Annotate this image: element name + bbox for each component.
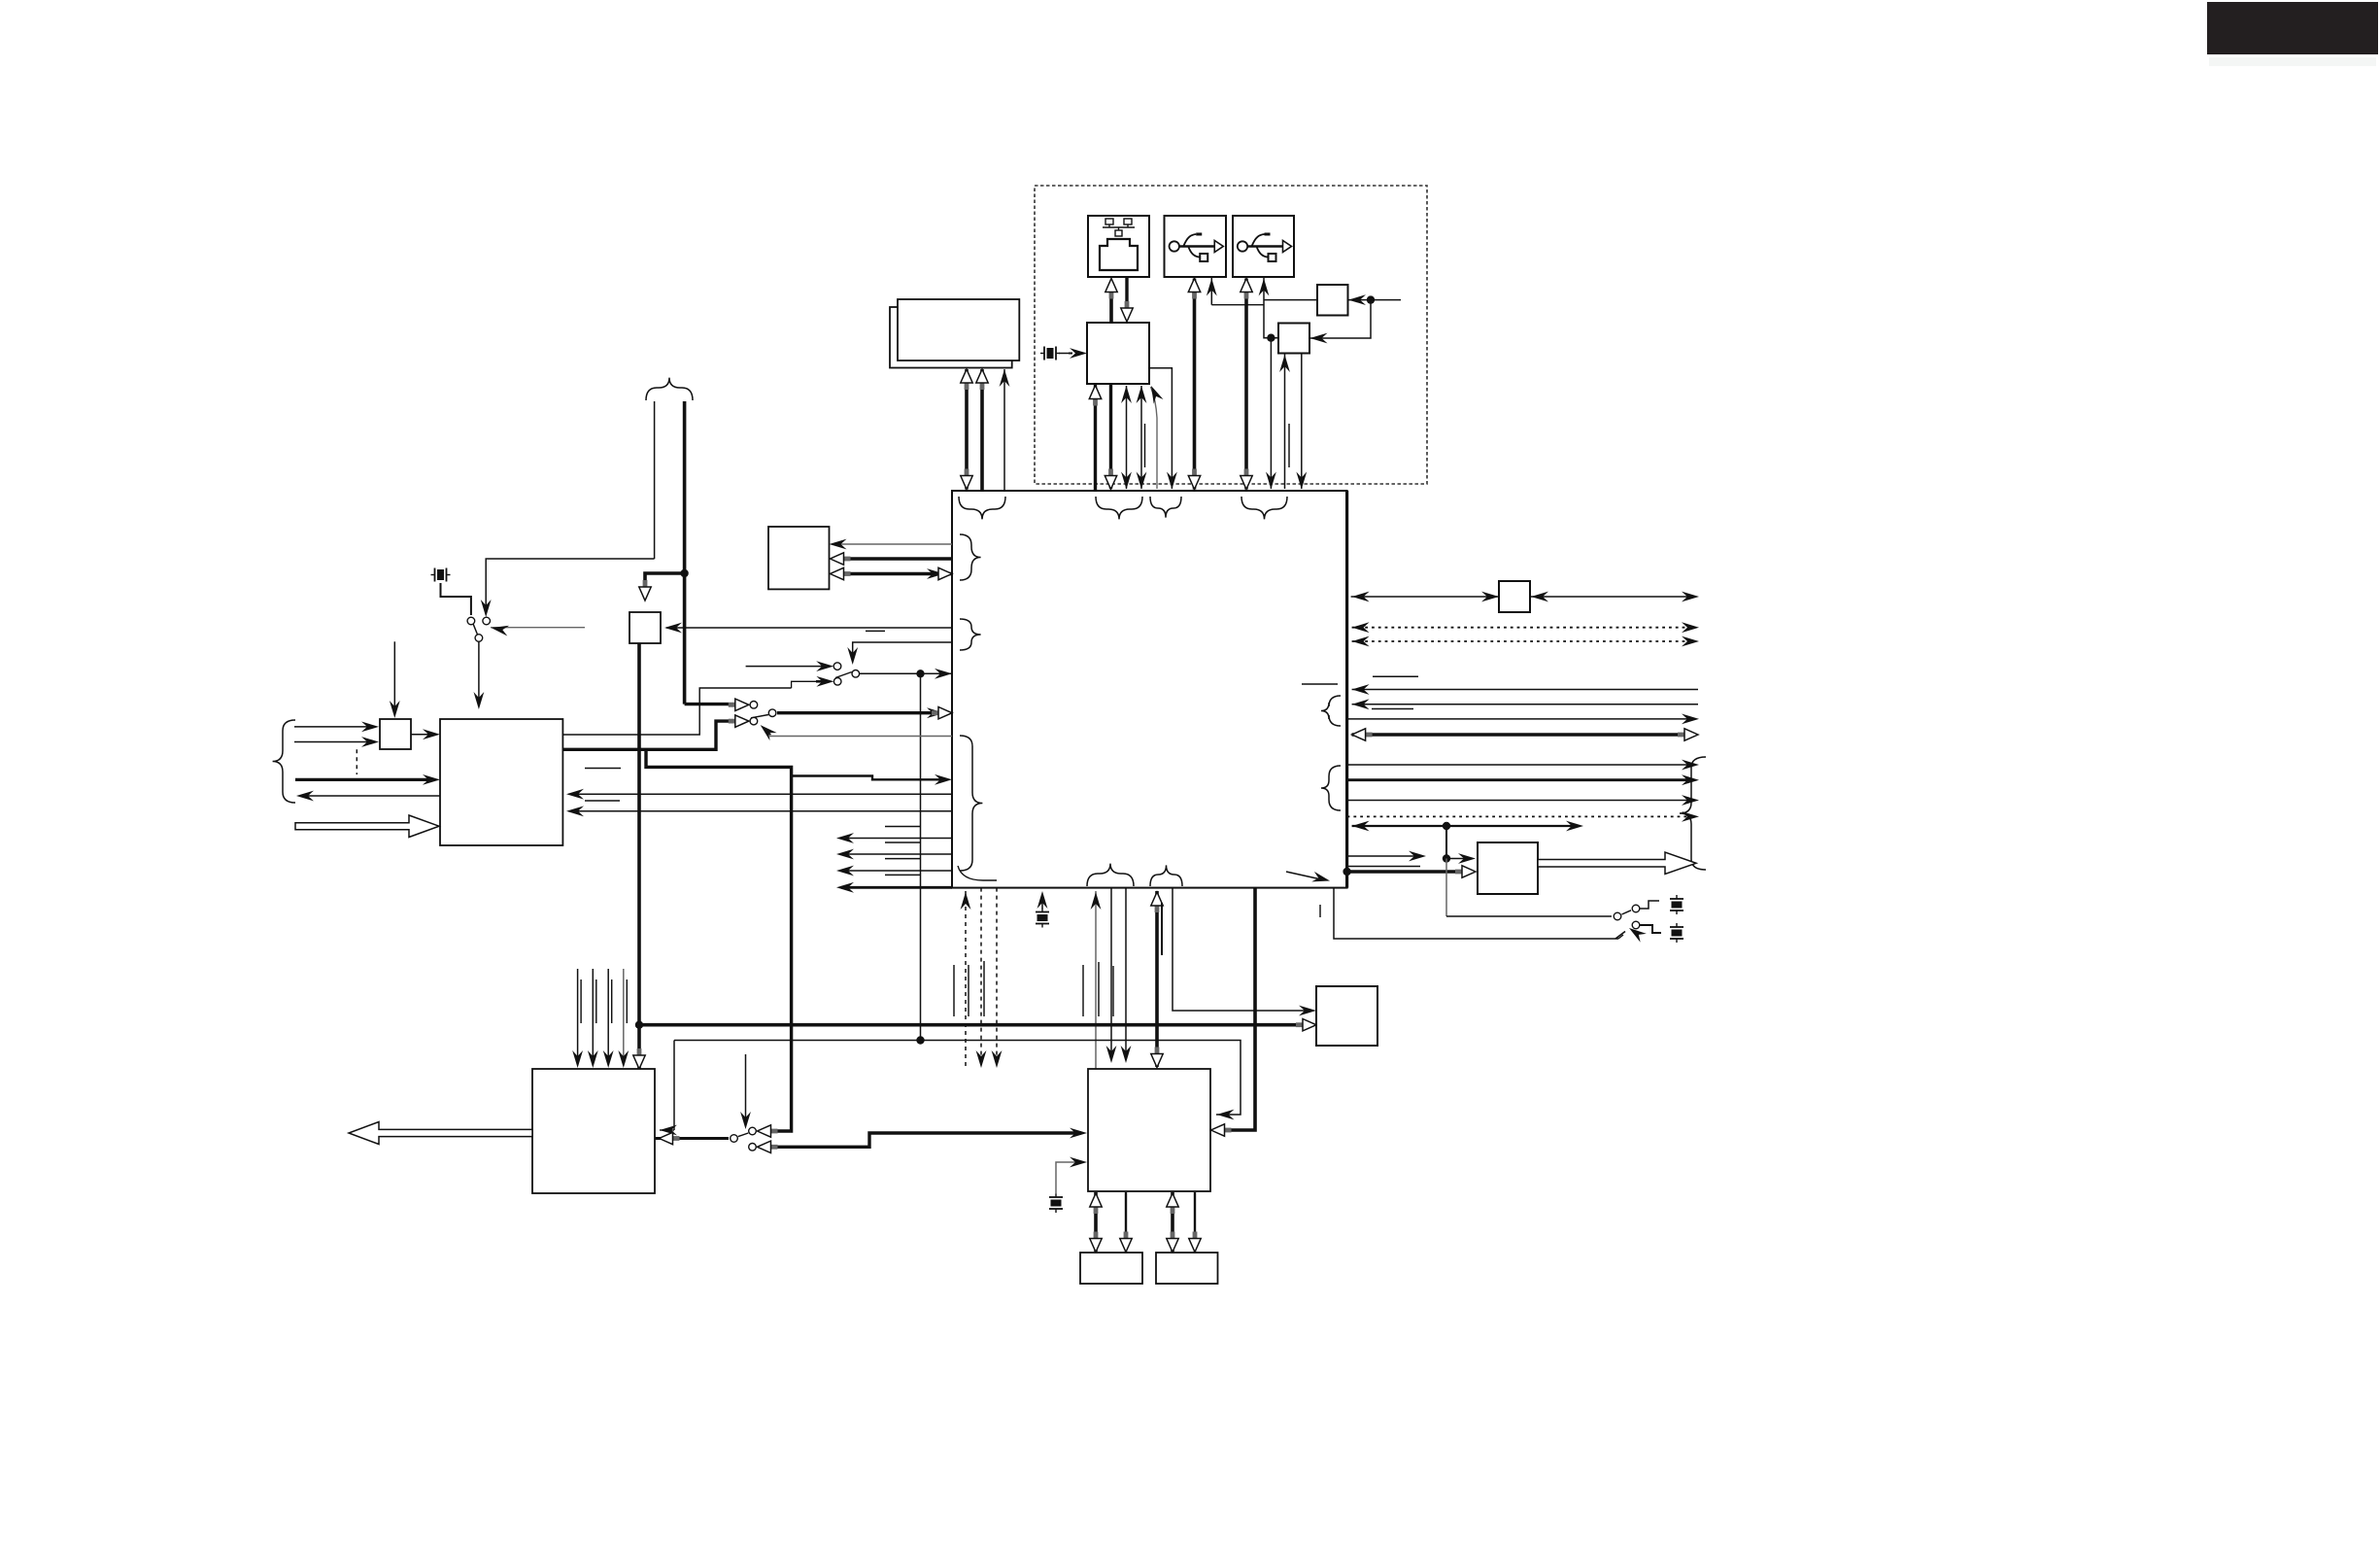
tick thick (1161, 903, 1163, 955)
control wire from U1 (853, 642, 952, 658)
wire S5 to X5 (1640, 925, 1661, 933)
control wire S4 (745, 1054, 747, 1123)
memory box F2 (1156, 1253, 1218, 1284)
wire U2 right to U1 (1149, 368, 1172, 489)
S5 throw dn (1632, 921, 1640, 929)
bus S3b to U1 (777, 711, 946, 714)
wire clk a down (654, 401, 656, 559)
wire net 1070 (674, 1041, 1241, 1116)
open arrow into S4b (758, 1125, 778, 1137)
open arrow into S3c (729, 715, 749, 727)
wire I-right (1530, 596, 1693, 598)
bus U1 to K c (845, 572, 952, 575)
bus H junction to J (639, 1023, 1310, 1027)
input mux box D (380, 719, 411, 749)
junction (1443, 822, 1450, 830)
S1 pole B (483, 617, 491, 625)
tick (595, 979, 597, 1023)
tick (968, 965, 969, 1016)
faint caption (2209, 57, 2376, 66)
arrow into U2 left (1070, 348, 1087, 359)
wire U2-U1 c (1126, 386, 1128, 489)
S3 throw a (750, 702, 758, 709)
junction bus (635, 1021, 643, 1029)
tick (885, 826, 921, 828)
usb icon 1 (1170, 234, 1224, 261)
wire into T1 (746, 666, 829, 668)
big open arrow out of DAC (1538, 852, 1696, 875)
wire into D top (393, 641, 395, 711)
S4 throw up (749, 1127, 757, 1135)
wire B-U1 b (1301, 354, 1303, 489)
dotted wire a (1352, 627, 1693, 629)
audio DAC box L (1478, 842, 1538, 894)
bus out e (1347, 778, 1693, 781)
filter box B (1278, 324, 1309, 354)
wire V2 down (920, 673, 922, 1040)
wire to S5 common (1446, 915, 1612, 917)
wire in b (1352, 704, 1698, 705)
brace top usb2 pins (1241, 497, 1287, 519)
front panel CPU block G (532, 1069, 655, 1193)
tick label (1288, 424, 1290, 467)
S4 throw dn (749, 1144, 757, 1151)
bus USB1-U1 (1193, 279, 1197, 490)
wire U1 left out y=913.3 (841, 886, 952, 889)
header black bar (2207, 2, 2378, 54)
wire to DAC (1446, 858, 1470, 860)
brace top usb1 pins (1150, 497, 1181, 518)
wire to U1 top (1270, 338, 1272, 489)
video DAC block E (440, 719, 562, 845)
wire X3 up (1041, 895, 1043, 910)
S5 throw up (1632, 905, 1640, 912)
S4 common (731, 1135, 738, 1143)
crystal X2 (431, 568, 451, 582)
brace top eth pins (1096, 497, 1142, 519)
dashed continuation tick (356, 749, 357, 774)
tick (983, 961, 985, 1016)
bus to DAC (1347, 870, 1467, 874)
main IC block U1 (952, 491, 1347, 888)
S3 blade (751, 715, 768, 718)
wire U1-I (1351, 596, 1499, 598)
tick (866, 630, 885, 632)
bus U1 to K b (845, 557, 952, 560)
tick (885, 874, 921, 876)
wire S1C down to E (478, 642, 480, 703)
tick label (1144, 424, 1146, 467)
T throw 2 (833, 678, 841, 686)
S5 selector diagonal arrow (1615, 932, 1625, 940)
wire to box A (1264, 299, 1317, 301)
dashed wire dn a (980, 888, 982, 1062)
wire U2 to J1 up (1109, 291, 1113, 323)
wire U1 left out y=862.5 (841, 838, 952, 840)
wire DSP-U1 a (1095, 891, 1097, 1069)
bus S4c to DSP (767, 1133, 1081, 1147)
tick (585, 768, 621, 770)
bus E to S3c (562, 721, 736, 749)
tick inside block (1302, 683, 1338, 685)
wire mem-U1 c (1003, 369, 1005, 491)
tick (585, 800, 620, 802)
S5 blade (1622, 910, 1632, 914)
brace top-left pins (959, 497, 1005, 519)
DSP block M (1088, 1069, 1210, 1191)
S4 blade (738, 1133, 749, 1137)
crystal X3 (1036, 909, 1049, 928)
tick (611, 979, 613, 1023)
wire USB2 thin (1264, 278, 1278, 338)
wire into B (1310, 300, 1372, 338)
wire bidir h (1352, 825, 1578, 827)
bus G to S4 common (655, 1137, 729, 1140)
ethernet jack J1 (1088, 216, 1149, 277)
bus mem-U1 a (965, 369, 969, 490)
filter box A (1317, 285, 1348, 316)
wire J1 to U2 down (1125, 277, 1128, 304)
arrow into T3 (816, 676, 833, 687)
wire U1 to J (1173, 888, 1310, 1011)
bus to box H (645, 573, 685, 595)
wire into A (1348, 299, 1401, 301)
usb icon 2 (1238, 234, 1292, 261)
dotted wire b (1352, 640, 1693, 642)
wire DSP to F2 b (1194, 1192, 1196, 1252)
wire U1 bottom to S5 (1334, 888, 1618, 939)
junction (1443, 854, 1450, 862)
wire in D a (294, 726, 373, 728)
junction (1267, 334, 1275, 342)
tick (1098, 962, 1100, 1016)
wire to S5 (1445, 859, 1447, 917)
wire elbow down to G (673, 1041, 675, 1131)
junction (1367, 295, 1375, 303)
tick (580, 979, 582, 1023)
tick (885, 858, 921, 860)
clock gen box H (629, 612, 661, 643)
wire out f (1347, 800, 1693, 802)
wire U1 left out y=896 (841, 870, 952, 872)
wire U2 corner gray (1151, 387, 1158, 489)
bus E staircase down to S4b (646, 749, 792, 1131)
crystal X4 (1670, 895, 1683, 914)
S3 selector diagonal arrow (764, 728, 770, 735)
wire out short (1347, 866, 1420, 868)
wire X2 to S1 (441, 583, 471, 615)
wire into G 3 (623, 969, 625, 1062)
tick (1372, 708, 1413, 710)
tick (1373, 675, 1418, 677)
wire out c (1347, 718, 1693, 720)
level shift box I (1499, 581, 1530, 612)
left brace inputs (273, 720, 295, 803)
wire U1 to E b (568, 810, 952, 812)
brace left pins group1 (960, 534, 981, 580)
bus clk b down (683, 401, 687, 704)
wire U1 left out y=879 (841, 853, 952, 855)
overbrace clock group (646, 378, 693, 400)
wire out d (1347, 764, 1693, 766)
brace right inner 1 (1321, 696, 1341, 726)
T common (852, 670, 860, 678)
bus USB2-U1 (1244, 279, 1248, 490)
wire USB1 thin (1210, 278, 1212, 305)
wire in D b (294, 741, 373, 743)
wire down (1445, 826, 1447, 859)
bus bidir (1352, 733, 1692, 737)
ethernet controller U2 (1087, 323, 1149, 384)
diagonal arrow into block corner (1286, 872, 1321, 879)
ethernet icon (1100, 219, 1138, 270)
bus mem-U1 b (980, 369, 984, 491)
T throw 1 (833, 663, 841, 670)
bus H down to G (637, 644, 641, 1070)
big right brace (1680, 757, 1706, 870)
tick (885, 842, 921, 843)
dashed wire up (965, 891, 967, 1069)
T blade (835, 672, 852, 678)
bus into E (295, 778, 433, 781)
dashed wire dn b (996, 888, 998, 1062)
box video sync K (768, 527, 830, 589)
wire U2-U1 d (1140, 386, 1142, 489)
tick (1082, 965, 1084, 1016)
elbow to S3a (685, 703, 736, 705)
wire T common to U1 (860, 672, 952, 674)
brace bottom pins2 (1150, 865, 1182, 886)
wire E out left (302, 795, 440, 797)
wire into G 2 (607, 969, 609, 1062)
crystal X5 (1670, 923, 1683, 943)
bus U1 to DSP right (1216, 888, 1255, 1130)
memory box F1 (1080, 1253, 1142, 1284)
wire clk a elbow (486, 559, 654, 612)
S5 common (1614, 912, 1621, 920)
wire B-U1 a (1284, 354, 1286, 489)
brace left pins group3 (960, 736, 982, 871)
junction V2 top (916, 670, 924, 677)
junction clk (680, 569, 688, 577)
big open arrow out of G (349, 1122, 532, 1145)
S3 throw c (750, 717, 758, 725)
S3 common b (768, 709, 776, 717)
USB port box 1 (1165, 216, 1227, 277)
wire DSP-U1 b (1110, 888, 1112, 1056)
main block right edge thick (1345, 491, 1348, 888)
bus DSP to F2 a (1171, 1192, 1174, 1252)
dotted out g (1347, 815, 1693, 817)
brace left pins group2 (960, 619, 981, 650)
bus U2-U1 b (1109, 385, 1112, 489)
tick (953, 965, 955, 1016)
wire into G 0 (577, 969, 579, 1062)
wire U1 to H (666, 627, 952, 629)
wire E to T3 (562, 688, 791, 735)
wire DSP-U1 c (1125, 888, 1127, 1056)
wire U1 to K a (833, 543, 952, 545)
tick (1112, 966, 1114, 1016)
wire X1 to U2 (1059, 353, 1069, 355)
wire S5 to X4 (1640, 901, 1659, 909)
S1 common C (475, 635, 483, 642)
brace right inner 2 (1321, 766, 1341, 810)
bus DSP to F1 a (1094, 1192, 1098, 1252)
wire in a (1352, 689, 1698, 691)
wire into G 1 (592, 969, 594, 1062)
tick (626, 979, 628, 1023)
memory front rect (898, 299, 1019, 361)
power box J (1316, 986, 1377, 1046)
wire out to right (1347, 855, 1420, 857)
junction V2 bottom (916, 1036, 924, 1044)
dashed enclosure (1035, 186, 1427, 484)
tick (1319, 905, 1321, 917)
S1 pole A (467, 617, 475, 625)
bus staircase to U1 (792, 776, 946, 780)
bus DSP-U1 d (1155, 891, 1159, 1067)
wire X6 to DSP (1056, 1162, 1081, 1194)
S1 blade (473, 624, 478, 635)
big open arrow bus into E (295, 815, 439, 838)
crystal X6 (1049, 1193, 1063, 1213)
wire D to E (411, 734, 433, 736)
junction at edge (1343, 868, 1350, 876)
brace bottom dsp pins (1087, 864, 1134, 886)
crystal X1 (1040, 347, 1060, 361)
bus U2-U1 a (1094, 384, 1097, 491)
gray control S3 (768, 736, 952, 738)
corner arc bottom-left inside block (958, 866, 997, 880)
wire DSP to F1 b (1125, 1192, 1127, 1252)
arrow into S1 throw B (481, 600, 492, 617)
gray stub from S1 (491, 627, 585, 629)
open arrow into S3a (729, 699, 749, 710)
USB port box 2 (1233, 216, 1294, 277)
wire U1 to E a (568, 793, 952, 795)
memory back rect (890, 307, 1012, 368)
